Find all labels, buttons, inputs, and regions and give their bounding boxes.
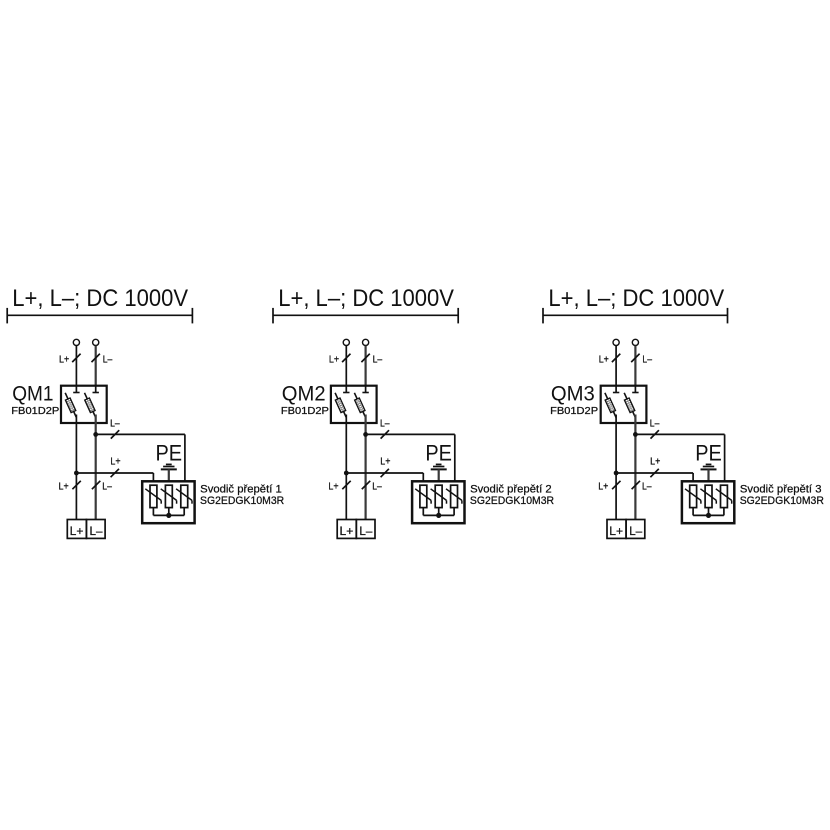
disconnect slash L- feed (circuit 2) xyxy=(361,354,369,362)
wire L+ vertical below QM3 xyxy=(615,415,617,520)
svg-text:L–: L– xyxy=(373,354,383,365)
svg-text:Svodič přepětí 1: Svodič přepětí 1 xyxy=(200,484,282,496)
disconnect slash L- lower (circuit 3) xyxy=(632,481,640,489)
svg-text:L+, L–; DC 1000V: L+, L–; DC 1000V xyxy=(278,285,454,312)
label L- lower (circuit 2) xyxy=(372,482,382,493)
fuse-switch pole L+ of QM1: contact bar, blade, fuse body xyxy=(65,386,79,418)
junction dot L- branch (circuit 2) xyxy=(363,432,368,437)
breaker box QM2 xyxy=(331,386,377,423)
label L+ lower (circuit 3) xyxy=(598,482,608,493)
svg-text:L+: L+ xyxy=(599,354,609,365)
wire L- vertical below QM1 xyxy=(95,415,97,520)
svg-text:PE: PE xyxy=(425,441,452,466)
svg-text:L+, L–; DC 1000V: L+, L–; DC 1000V xyxy=(548,285,724,312)
label L+ branch (circuit 2) xyxy=(380,457,390,468)
disconnect slash L+ lower (circuit 2) xyxy=(342,481,350,489)
label terminal L- (circuit 2) xyxy=(359,524,372,538)
disconnect slash L- branch (circuit 1) xyxy=(111,430,119,438)
disconnect slash L- lower (circuit 1) xyxy=(92,481,100,489)
svg-text:L–: L– xyxy=(110,419,120,430)
net label header: L+, L-; DC 1000V (circuit 3) xyxy=(548,285,724,312)
svg-text:FB01D2P: FB01D2P xyxy=(11,406,60,417)
svg-text:L+, L–; DC 1000V: L+, L–; DC 1000V xyxy=(12,285,188,312)
svg-text:L+: L+ xyxy=(329,354,339,365)
disconnect slash L- branch (circuit 2) xyxy=(381,430,389,438)
label terminal L- (circuit 1) xyxy=(90,524,103,538)
label PE (circuit 1) xyxy=(156,441,183,466)
disconnect slash L- feed (circuit 1) xyxy=(92,354,100,362)
fuse-switch pole L+ of QM3: contact bar, blade, fuse body xyxy=(605,386,619,418)
terminal circle L+ (circuit 1) xyxy=(73,339,79,345)
label L+ lower (circuit 1) xyxy=(59,482,69,493)
wire L- feed (circuit 2) xyxy=(365,346,367,393)
junction dot L+ branch (circuit 2) xyxy=(344,471,349,476)
svg-text:PE: PE xyxy=(156,441,183,466)
svg-text:SG2EDGK10M3R: SG2EDGK10M3R xyxy=(200,495,284,507)
fuse-switch pole L+ of QM2: contact bar, blade, fuse body xyxy=(335,386,349,418)
varistor 2 in SPD (circuit 1) xyxy=(161,485,177,507)
svg-text:FB01D2P: FB01D2P xyxy=(281,406,330,417)
label QM1 xyxy=(12,381,53,405)
junction dot L+ branch (circuit 1) xyxy=(74,471,79,476)
disconnect slash L+ lower (circuit 3) xyxy=(612,481,620,489)
breaker box QM3 xyxy=(601,386,647,423)
svg-text:L+: L+ xyxy=(70,524,84,538)
svg-text:L–: L– xyxy=(359,524,372,538)
label L+ branch (circuit 3) xyxy=(650,457,660,468)
disconnect slash L+ lower (circuit 1) xyxy=(72,481,80,489)
label terminal L- (circuit 3) xyxy=(629,524,642,538)
fuse-switch pole L- of QM3: contact bar, blade, fuse body xyxy=(624,386,638,418)
label PE (circuit 3) xyxy=(695,441,722,466)
label L- feed (circuit 2) xyxy=(373,354,383,365)
label L- lower (circuit 3) xyxy=(642,482,652,493)
wire L+ vertical below QM2 xyxy=(345,415,347,520)
svg-text:SG2EDGK10M3R: SG2EDGK10M3R xyxy=(740,495,824,507)
label terminal L+ (circuit 3) xyxy=(609,524,623,538)
label terminal L+ (circuit 2) xyxy=(340,524,354,538)
svg-text:QM1: QM1 xyxy=(12,381,53,405)
fuse-switch pole L- of QM1: contact bar, blade, fuse body xyxy=(85,386,99,418)
varistor 1 in SPD (circuit 3) xyxy=(685,485,701,507)
svg-text:L+: L+ xyxy=(598,482,608,493)
varistor 3 in SPD (circuit 3) xyxy=(716,485,732,507)
wire L- feed (circuit 1) xyxy=(95,346,97,393)
svg-text:L–: L– xyxy=(642,354,652,365)
label L+ branch (circuit 1) xyxy=(110,457,120,468)
output terminal box L- (circuit 3) xyxy=(626,520,645,539)
svg-text:SG2EDGK10M3R: SG2EDGK10M3R xyxy=(470,495,554,507)
SPD common bus and junction dot (circuit 1) xyxy=(153,508,184,518)
svg-text:L+: L+ xyxy=(650,457,660,468)
disconnect slash L- lower (circuit 2) xyxy=(362,481,370,489)
junction dot L- branch (circuit 3) xyxy=(633,432,638,437)
varistor 1 in SPD (circuit 2) xyxy=(415,485,431,507)
junction dot L- branch (circuit 1) xyxy=(93,432,98,437)
terminal circle L- (circuit 1) xyxy=(93,339,99,345)
label L- branch (circuit 2) xyxy=(380,419,390,430)
wire L- branch to SPD (circuit 1) xyxy=(96,434,185,485)
label Svodič přepětí 2 xyxy=(470,484,552,496)
label QM3 xyxy=(551,381,595,405)
wire L- vertical below QM3 xyxy=(634,415,636,520)
disconnect slash L- branch (circuit 3) xyxy=(651,430,659,438)
wire L+ branch to SPD (circuit 3) xyxy=(616,473,693,485)
output terminal box L- (circuit 1) xyxy=(86,520,105,539)
svg-text:L+: L+ xyxy=(340,524,354,538)
net label header: L+, L-; DC 1000V (circuit 1) xyxy=(12,285,188,312)
svg-text:L+: L+ xyxy=(59,354,69,365)
label L- branch (circuit 3) xyxy=(650,419,660,430)
terminal circle L+ (circuit 3) xyxy=(613,339,619,345)
SPD box Svodič přepětí 2 xyxy=(412,481,464,523)
svg-text:PE: PE xyxy=(695,441,722,466)
svg-text:QM3: QM3 xyxy=(551,381,595,405)
disconnect slash L- feed (circuit 3) xyxy=(631,354,639,362)
svg-text:L+: L+ xyxy=(328,482,338,493)
earth symbol PE (circuit 2) xyxy=(431,464,447,485)
svg-text:L+: L+ xyxy=(59,482,69,493)
earth symbol PE (circuit 1) xyxy=(161,464,177,485)
bus bracket (circuit 1) xyxy=(7,308,192,324)
output terminal box L+ (circuit 1) xyxy=(67,520,86,539)
svg-text:L–: L– xyxy=(629,524,642,538)
SPD common bus and junction dot (circuit 2) xyxy=(423,508,454,518)
breaker box QM1 xyxy=(61,386,107,423)
varistor 2 in SPD (circuit 2) xyxy=(431,485,447,507)
label SG2EDGK10M3R (circuit 3) xyxy=(740,495,824,507)
label L+ feed (circuit 3) xyxy=(599,354,609,365)
label L+ feed (circuit 1) xyxy=(59,354,69,365)
bus bracket (circuit 2) xyxy=(273,308,458,324)
label L- lower (circuit 1) xyxy=(102,482,112,493)
fuse-switch pole L- of QM2: contact bar, blade, fuse body xyxy=(354,386,368,418)
SPD box Svodič přepětí 1 xyxy=(142,481,194,523)
output terminal box L+ (circuit 3) xyxy=(607,520,626,539)
label FB01D2P (circuit 1) xyxy=(11,406,60,417)
label L+ feed (circuit 2) xyxy=(329,354,339,365)
disconnect slash L+ feed (circuit 1) xyxy=(72,354,80,362)
wire L+ vertical below QM1 xyxy=(75,415,77,520)
label L+ lower (circuit 2) xyxy=(328,482,338,493)
label PE (circuit 2) xyxy=(425,441,452,466)
disconnect slash L+ branch (circuit 3) xyxy=(650,469,658,477)
disconnect slash L+ branch (circuit 2) xyxy=(381,469,389,477)
varistor 3 in SPD (circuit 2) xyxy=(446,485,462,507)
wire L- feed (circuit 3) xyxy=(634,346,636,393)
label Svodič přepětí 1 xyxy=(200,484,282,496)
SPD common bus and junction dot (circuit 3) xyxy=(693,508,724,518)
svg-text:L–: L– xyxy=(102,482,112,493)
wire L- vertical below QM2 xyxy=(365,415,367,520)
wire L+ branch to SPD (circuit 2) xyxy=(346,473,423,485)
svg-text:L–: L– xyxy=(372,482,382,493)
label Svodič přepětí 3 xyxy=(740,484,822,496)
svg-text:Svodič přepětí 3: Svodič přepětí 3 xyxy=(740,484,822,496)
label L- feed (circuit 1) xyxy=(103,354,113,365)
svg-text:QM2: QM2 xyxy=(282,381,326,405)
svg-text:L–: L– xyxy=(103,354,113,365)
svg-text:L+: L+ xyxy=(110,457,120,468)
junction dot L+ branch (circuit 3) xyxy=(614,471,619,476)
svg-text:L–: L– xyxy=(90,524,103,538)
earth symbol PE (circuit 3) xyxy=(701,464,717,485)
wire L- branch to SPD (circuit 3) xyxy=(635,434,724,485)
disconnect slash L+ branch (circuit 1) xyxy=(111,469,119,477)
svg-text:FB01D2P: FB01D2P xyxy=(550,406,599,417)
SPD box Svodič přepětí 3 xyxy=(682,481,734,523)
svg-text:Svodič přepětí 2: Svodič přepětí 2 xyxy=(470,484,552,496)
varistor 2 in SPD (circuit 3) xyxy=(700,485,716,507)
wire L+ feed (circuit 1) xyxy=(75,346,77,393)
disconnect slash L+ feed (circuit 2) xyxy=(342,354,350,362)
svg-text:L+: L+ xyxy=(380,457,390,468)
net label header: L+, L-; DC 1000V (circuit 2) xyxy=(278,285,454,312)
label SG2EDGK10M3R (circuit 1) xyxy=(200,495,284,507)
disconnect slash L+ feed (circuit 3) xyxy=(612,354,620,362)
label QM2 xyxy=(282,381,326,405)
label terminal L+ (circuit 1) xyxy=(70,524,84,538)
terminal circle L+ (circuit 2) xyxy=(343,339,349,345)
label FB01D2P (circuit 2) xyxy=(281,406,330,417)
label SG2EDGK10M3R (circuit 2) xyxy=(470,495,554,507)
output terminal box L+ (circuit 2) xyxy=(337,520,356,539)
bus bracket (circuit 3) xyxy=(543,308,728,324)
varistor 1 in SPD (circuit 1) xyxy=(145,485,161,507)
wire L+ feed (circuit 2) xyxy=(345,346,347,393)
svg-text:L–: L– xyxy=(650,419,660,430)
label FB01D2P (circuit 3) xyxy=(550,406,599,417)
svg-text:L+: L+ xyxy=(609,524,623,538)
label L- branch (circuit 1) xyxy=(110,419,120,430)
wire L- branch to SPD (circuit 2) xyxy=(366,434,455,485)
wire L+ branch to SPD (circuit 1) xyxy=(76,473,153,485)
terminal circle L- (circuit 2) xyxy=(363,339,369,345)
svg-text:L–: L– xyxy=(642,482,652,493)
terminal circle L- (circuit 3) xyxy=(632,339,638,345)
varistor 3 in SPD (circuit 1) xyxy=(176,485,192,507)
output terminal box L- (circuit 2) xyxy=(356,520,375,539)
svg-text:L–: L– xyxy=(380,419,390,430)
wire L+ feed (circuit 3) xyxy=(615,346,617,393)
label L- feed (circuit 3) xyxy=(642,354,652,365)
